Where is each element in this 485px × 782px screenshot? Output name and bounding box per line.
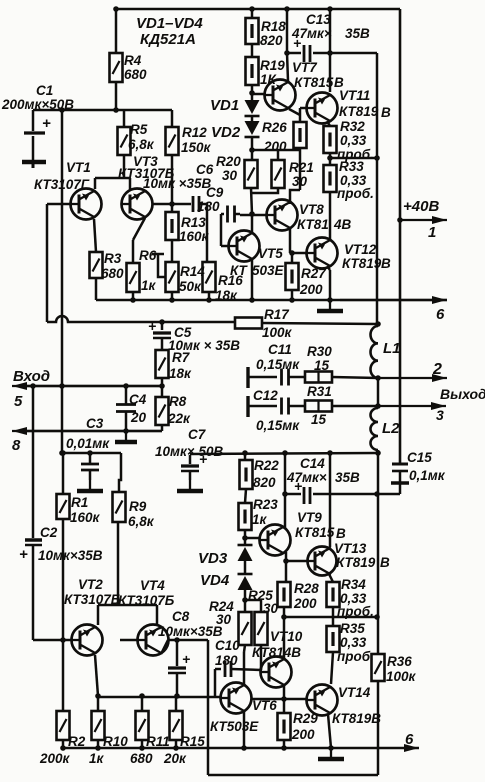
wire input line with terminal 5 arrow bbox=[12, 382, 162, 390]
wire VT9 emitter to R28 bbox=[285, 552, 288, 582]
wire VT4 output drop x=208 bbox=[207, 640, 210, 775]
wire VT14 emitter down bbox=[328, 714, 331, 748]
wire R22 top lead bbox=[244, 453, 247, 460]
transistor VT11 bbox=[306, 93, 338, 124]
junction C13 node bbox=[284, 50, 290, 56]
svg-text:КТ819: КТ819 bbox=[336, 555, 376, 570]
resistor R12 bbox=[166, 127, 179, 155]
resistor R19 bbox=[246, 57, 259, 85]
resistor R25 bbox=[255, 612, 268, 645]
wire R26 top lead bbox=[299, 115, 302, 122]
svg-text:1: 1 bbox=[428, 224, 436, 241]
svg-text:КТ81: КТ81 bbox=[297, 217, 329, 232]
junction R6/rail bbox=[130, 297, 136, 303]
wire R14 wiper bbox=[158, 254, 166, 277]
wire VD1-VD2 bbox=[251, 116, 254, 121]
resistor R31 bbox=[305, 401, 332, 412]
wire C3 top lead bbox=[89, 453, 92, 464]
capacitor C8 bbox=[168, 668, 186, 696]
wire VT5 collector up bbox=[251, 214, 254, 232]
wire R25 top lead bbox=[260, 600, 263, 612]
wire R32-R33 bbox=[329, 153, 332, 165]
wire VT4 base lead bbox=[120, 639, 137, 642]
wire C12 branch end plate bbox=[246, 396, 249, 417]
svg-text:R3: R3 bbox=[104, 251, 122, 266]
wire input return line y=431 bbox=[26, 430, 162, 433]
wire C8 top lead bbox=[176, 640, 179, 666]
svg-text:30: 30 bbox=[263, 601, 279, 616]
capacitor C1 bbox=[22, 110, 46, 168]
wire R24 bottom bbox=[244, 645, 245, 652]
wire VT6 collector up bbox=[243, 652, 246, 684]
junction R16/rail bbox=[206, 297, 212, 303]
junction R4/rail110 bbox=[113, 107, 119, 113]
inductor L2 bbox=[371, 408, 379, 450]
svg-text:VT13: VT13 bbox=[334, 541, 367, 556]
svg-text:R31: R31 bbox=[307, 384, 332, 399]
wire C9 left lead bbox=[221, 213, 224, 216]
wire VT4 collector bbox=[161, 640, 168, 654]
resistor R35 bbox=[327, 626, 340, 652]
transistor VT8 bbox=[266, 200, 298, 231]
svg-text:+: + bbox=[19, 546, 28, 563]
junction R11/rail bbox=[139, 745, 145, 751]
svg-text:10мк×35В: 10мк×35В bbox=[38, 548, 103, 563]
svg-text:С11: С11 bbox=[268, 342, 292, 357]
svg-text:В: В bbox=[381, 256, 391, 271]
wire to VT8 emitter bbox=[290, 190, 300, 204]
wire emitter tie y=178 bbox=[95, 177, 130, 180]
svg-text:VD2: VD2 bbox=[211, 124, 241, 141]
svg-text:4В: 4В bbox=[333, 217, 352, 232]
wire C10 left lead bbox=[215, 668, 221, 671]
wire +40V terminal line bbox=[400, 216, 447, 224]
svg-text:0,1мк: 0,1мк bbox=[409, 468, 446, 483]
capacitor C10 bbox=[225, 661, 231, 677]
wire R35 top lead bbox=[332, 617, 335, 626]
transistor VT2 bbox=[71, 625, 103, 656]
wire R9 bottom to emitter node bbox=[117, 522, 120, 605]
svg-text:R11: R11 bbox=[146, 734, 170, 749]
svg-text:1к: 1к bbox=[252, 512, 268, 527]
svg-text:+: + bbox=[199, 451, 207, 467]
junction C4/return line bbox=[123, 428, 129, 434]
wire R22-R23 bbox=[245, 489, 246, 503]
svg-text:R4: R4 bbox=[124, 53, 142, 68]
svg-text:R32: R32 bbox=[340, 119, 365, 134]
wire R31 to bus bbox=[332, 405, 378, 408]
svg-text:+: + bbox=[42, 115, 51, 132]
wire output bus below L2 bbox=[377, 450, 380, 654]
wire VT5 emitter to rail bbox=[251, 260, 254, 300]
svg-text:10мк ×35В: 10мк ×35В bbox=[143, 176, 211, 191]
svg-text:15: 15 bbox=[311, 412, 327, 427]
svg-text:КТ814В: КТ814В bbox=[252, 645, 301, 660]
wire output terminal 2 line bbox=[378, 374, 447, 382]
wire x=287 rail drop bbox=[286, 9, 289, 53]
wire R19 to VD1 bbox=[251, 85, 254, 100]
transistor VT14 bbox=[306, 685, 338, 716]
svg-text:VT4: VT4 bbox=[140, 578, 165, 593]
junction diode string node bbox=[249, 147, 255, 153]
wire VT1 collector to R3 bbox=[94, 219, 96, 252]
junction VT6/rail bbox=[241, 745, 247, 751]
wire R3 to rail bbox=[95, 278, 98, 300]
junction R29/rail bbox=[281, 745, 287, 751]
transistor VT10 bbox=[260, 657, 292, 688]
transistor VT9 bbox=[259, 525, 291, 556]
svg-text:L2: L2 bbox=[382, 420, 400, 437]
transistor VT12 bbox=[306, 238, 338, 269]
wire VT1 base drop x=47 bbox=[46, 204, 49, 322]
wire R30 to bus bbox=[332, 377, 378, 378]
svg-text:50к: 50к bbox=[179, 279, 202, 294]
wire y=323 R17 to output bus bbox=[262, 323, 377, 324]
svg-text:22к: 22к bbox=[167, 411, 191, 426]
svg-text:180: 180 bbox=[197, 199, 220, 214]
capacitor C5 bbox=[153, 333, 171, 350]
junction R11 top bbox=[139, 693, 145, 699]
svg-text:VT14: VT14 bbox=[338, 685, 371, 700]
resistor R5 bbox=[118, 127, 131, 155]
svg-text:R17: R17 bbox=[264, 307, 290, 322]
junction VT2 collector node bbox=[95, 693, 101, 699]
junction VT5 collector node bbox=[249, 211, 255, 217]
junction rail/R22 bbox=[242, 450, 248, 456]
resistor R11 bbox=[136, 711, 149, 740]
wire R21 bottom tie bbox=[252, 188, 278, 193]
transistor VT4 bbox=[137, 625, 169, 656]
svg-text:0,15мк: 0,15мк bbox=[256, 357, 300, 372]
junction x62/C3 branch bbox=[59, 450, 65, 456]
svg-text:VD3: VD3 bbox=[198, 550, 228, 567]
wire R16 to rail bbox=[208, 292, 211, 300]
resistor R10 bbox=[92, 711, 105, 740]
wire R25 bottom bbox=[260, 645, 263, 652]
wire R13 to R14 bbox=[171, 240, 174, 262]
wire y=453 left C3 branch bbox=[62, 452, 121, 455]
wire bottom terminal 6 arrowhead bbox=[404, 744, 419, 752]
ground under C3 bbox=[77, 480, 103, 491]
capacitor C15 bbox=[391, 464, 409, 494]
junction R12/R13/base node bbox=[169, 201, 175, 207]
junction C5/feedback line bbox=[159, 319, 165, 325]
node top rail / R4 bbox=[113, 6, 119, 12]
svg-text:R8: R8 bbox=[169, 394, 187, 409]
svg-text:VT7: VT7 bbox=[292, 60, 318, 75]
wire VT4 emitter up bbox=[156, 605, 159, 624]
svg-text:200к: 200к bbox=[39, 751, 71, 766]
junction R10/rail bbox=[95, 745, 101, 751]
svg-text:VT8: VT8 bbox=[299, 202, 324, 217]
wire VD4 to R24 bbox=[244, 590, 247, 612]
wire VT8 base lead bbox=[240, 214, 267, 217]
svg-text:VT2: VT2 bbox=[78, 577, 103, 592]
svg-text:VT10: VT10 bbox=[270, 629, 303, 644]
wire VT7 collector up bbox=[287, 53, 288, 81]
svg-text:R1: R1 bbox=[71, 495, 88, 510]
wire emitter tie line y=605 bbox=[98, 604, 157, 607]
svg-text:Выход: Выход bbox=[440, 386, 485, 402]
wire R28 to VT10 emitter bbox=[283, 607, 286, 660]
wire R11 top lead bbox=[141, 696, 144, 711]
svg-text:R9: R9 bbox=[129, 499, 147, 514]
svg-text:R23: R23 bbox=[253, 497, 278, 512]
wire bus below R36 bbox=[377, 681, 380, 775]
svg-text:10мк × 35В: 10мк × 35В bbox=[168, 338, 240, 353]
wire VT2 collector down bbox=[95, 655, 98, 696]
wire C4 top lead bbox=[125, 386, 128, 404]
resistor R9 bbox=[113, 492, 126, 522]
wire C12 branch left bbox=[248, 405, 277, 408]
svg-text:150к: 150к bbox=[181, 140, 212, 155]
junction rail/x285 bbox=[282, 450, 288, 456]
svg-text:+: + bbox=[182, 651, 190, 667]
svg-text:КТ503Е: КТ503Е bbox=[210, 719, 259, 734]
resistor R2 bbox=[57, 711, 70, 740]
wire C10 stub bbox=[214, 669, 217, 697]
junction L2 top / output 3 bbox=[375, 403, 381, 409]
wire C12-R31 bbox=[289, 405, 305, 408]
svg-text:С4: С4 bbox=[129, 392, 147, 407]
wire R27 to rail bbox=[291, 290, 294, 300]
wire C9 right lead bbox=[235, 213, 240, 216]
svg-text:160к: 160к bbox=[179, 229, 210, 244]
resistor R7 bbox=[156, 350, 169, 378]
wire R14 wiper tee bbox=[152, 253, 164, 256]
svg-text:1к: 1к bbox=[141, 278, 157, 293]
svg-text:100к: 100к bbox=[262, 325, 293, 340]
wire VT12 base lead bbox=[290, 252, 307, 255]
resistor R4 bbox=[110, 53, 123, 82]
resistor R23 bbox=[239, 503, 252, 530]
svg-text:+: + bbox=[148, 318, 156, 334]
svg-text:35В: 35В bbox=[345, 26, 370, 41]
svg-text:R2: R2 bbox=[68, 734, 86, 749]
svg-text:КТ819: КТ819 bbox=[342, 256, 382, 271]
svg-text:КТ3107Г: КТ3107Г bbox=[34, 177, 90, 192]
wire C5 top lead bbox=[161, 322, 164, 330]
wire R20 bottom to node bbox=[251, 188, 252, 214]
svg-text:VD1: VD1 bbox=[210, 97, 239, 114]
wire C6 to R16 bbox=[199, 204, 207, 262]
resistor R16 bbox=[203, 262, 216, 292]
wire R6 to rail bbox=[132, 292, 135, 300]
svg-text:R18: R18 bbox=[261, 19, 286, 34]
svg-text:R30: R30 bbox=[307, 344, 332, 359]
svg-text:VT11: VT11 bbox=[339, 88, 370, 103]
svg-text:1к: 1к bbox=[89, 751, 105, 766]
svg-text:VT12: VT12 bbox=[344, 242, 377, 257]
svg-text:R15: R15 bbox=[180, 734, 205, 749]
svg-text:820: 820 bbox=[260, 33, 283, 48]
wire VT11 emitter to R32 bbox=[327, 121, 330, 126]
junction L1 top bbox=[375, 321, 381, 327]
wire x=33 down to C2 bbox=[32, 386, 35, 538]
svg-text:680: 680 bbox=[124, 67, 147, 82]
wire bottom-most line y=775 bbox=[208, 774, 378, 777]
junction x62/rail110 bbox=[59, 107, 65, 113]
svg-text:проб.: проб. bbox=[337, 186, 374, 201]
capacitor C9 bbox=[228, 206, 235, 223]
wire corner down to R9 bbox=[119, 453, 121, 492]
wire VT13 collector drop bbox=[329, 453, 332, 547]
resistor R3 bbox=[90, 252, 103, 278]
wire R15 bottom bbox=[175, 740, 178, 748]
ground under C7 bbox=[177, 480, 203, 491]
svg-text:С9: С9 bbox=[206, 185, 224, 200]
wire R33 to VT12 collector bbox=[329, 192, 332, 241]
diode VD4 bbox=[238, 574, 253, 590]
svg-text:0,33: 0,33 bbox=[340, 635, 367, 650]
svg-text:35В: 35В bbox=[335, 470, 360, 485]
resistor R6 bbox=[127, 263, 140, 292]
capacitor C11 bbox=[282, 369, 289, 386]
transistor VT5 bbox=[228, 231, 260, 262]
resistor R26 bbox=[294, 122, 307, 148]
wire VT1 emitter lead bbox=[94, 178, 97, 189]
svg-text:КТ815: КТ815 bbox=[294, 75, 334, 90]
resistor R30 bbox=[305, 372, 332, 383]
wire R34 bottom bbox=[332, 607, 335, 617]
wire VT3 emitter lead bbox=[129, 178, 132, 189]
wire C3 bottom lead bbox=[89, 470, 92, 480]
wire x=63 R2 bottom bbox=[62, 740, 65, 748]
junction rail/x330 bbox=[327, 6, 333, 12]
wire R11 bottom bbox=[141, 740, 144, 748]
resistor R34 bbox=[327, 582, 340, 607]
svg-text:200: 200 bbox=[291, 727, 315, 742]
transistor VT13 bbox=[307, 547, 337, 576]
svg-text:КТ3107Б: КТ3107Б bbox=[64, 592, 121, 607]
resistor R1 bbox=[57, 494, 70, 519]
junction R2/rail bbox=[60, 745, 66, 751]
svg-text:VD1–VD4: VD1–VD4 bbox=[136, 15, 203, 32]
resistor R21 bbox=[272, 160, 285, 188]
junction lower diode node bbox=[242, 597, 248, 603]
resistor R22 bbox=[240, 460, 253, 489]
svg-text:R27: R27 bbox=[301, 266, 327, 281]
junction y617 node bbox=[281, 614, 287, 620]
diode VD1 bbox=[245, 100, 260, 116]
junction VT13 base tap bbox=[283, 558, 289, 564]
capacitor C4 bbox=[116, 405, 136, 412]
svg-text:47мк×: 47мк× bbox=[291, 26, 332, 41]
wire top +40V rail bbox=[116, 8, 400, 11]
junction C8 tap bbox=[174, 637, 180, 643]
wire VD3-VD4 bbox=[244, 561, 247, 574]
transistor VT6 bbox=[220, 683, 252, 714]
wire bottom rail y=748 bbox=[63, 747, 419, 750]
wire C10 right lead bbox=[231, 669, 261, 670]
wire C4 bottom lead bbox=[125, 411, 128, 431]
svg-text:R35: R35 bbox=[340, 621, 365, 636]
svg-text:5: 5 bbox=[14, 393, 23, 410]
resistor R17 bbox=[235, 318, 262, 329]
svg-text:0,15мк: 0,15мк bbox=[256, 418, 300, 433]
junction input/R7R8 bbox=[159, 383, 165, 389]
wire R5 top lead bbox=[123, 110, 126, 127]
junction VT7 base node bbox=[249, 90, 255, 96]
svg-text:R10: R10 bbox=[103, 734, 128, 749]
svg-text:6: 6 bbox=[405, 731, 414, 748]
junction bus/y617 bbox=[374, 614, 380, 620]
resistor R24 bbox=[239, 612, 252, 645]
svg-text:В: В bbox=[380, 555, 390, 570]
wire return line with terminal 8 arrow bbox=[12, 427, 162, 435]
svg-text:С8: С8 bbox=[172, 609, 190, 624]
wire lower mid rail y=453 bbox=[190, 453, 378, 454]
junction +40V tap bbox=[397, 217, 403, 223]
junction input/C4 bbox=[123, 383, 129, 389]
capacitor C2 bbox=[25, 540, 42, 640]
wire R18 top lead bbox=[251, 9, 254, 18]
wire VT5 base lead bbox=[221, 245, 228, 248]
svg-text:6,8к: 6,8к bbox=[128, 137, 155, 152]
wire R8 top lead bbox=[161, 386, 164, 397]
svg-text:0,33: 0,33 bbox=[340, 133, 367, 148]
junction R15/rail bbox=[173, 745, 179, 751]
wire VT13 base lead bbox=[286, 560, 308, 563]
resistor R13 bbox=[166, 212, 179, 240]
wire x=63 above R1 bbox=[62, 453, 65, 494]
svg-text:VT5: VT5 bbox=[258, 246, 283, 261]
wire VT1 base lead bbox=[47, 203, 71, 206]
svg-text:47мк×: 47мк× bbox=[286, 470, 327, 485]
transistor VT7 bbox=[264, 80, 296, 111]
wire C11-R30 bbox=[289, 376, 305, 379]
svg-text:8: 8 bbox=[12, 437, 21, 454]
wire y=617 line bbox=[284, 616, 377, 619]
svg-text:0,01мк: 0,01мк bbox=[66, 436, 110, 451]
junction R27 tap bbox=[289, 250, 295, 256]
junction VT14 base node bbox=[281, 696, 287, 702]
resistor R33 bbox=[324, 165, 337, 192]
wire VT12 emitter to rail bbox=[329, 270, 332, 300]
resistor R14 bbox=[166, 262, 179, 292]
junction bus tap y=158 bbox=[374, 155, 380, 161]
svg-text:200: 200 bbox=[293, 596, 317, 611]
wire VT3 collector bbox=[133, 218, 145, 240]
junction input/x33 bbox=[30, 383, 36, 389]
junction x63/VT2 base bbox=[60, 637, 66, 643]
svg-text:30: 30 bbox=[216, 612, 232, 627]
svg-text:С12: С12 bbox=[253, 388, 278, 403]
transistor VT1 bbox=[70, 189, 102, 220]
svg-text:проб.: проб. bbox=[337, 649, 374, 664]
junction ground tap bbox=[327, 297, 333, 303]
junction R1 top bbox=[60, 450, 66, 456]
wire R25 bottom to VT10 base bbox=[260, 652, 263, 670]
wire VT9 collector drop bbox=[284, 453, 287, 528]
wire R4 top lead bbox=[115, 9, 118, 53]
junction rail/x330 lower bbox=[327, 450, 333, 456]
svg-text:С15: С15 bbox=[407, 450, 432, 465]
svg-text:200: 200 bbox=[263, 139, 287, 154]
svg-text:6,8к: 6,8к bbox=[128, 514, 155, 529]
svg-text:КТ819: КТ819 bbox=[339, 104, 379, 119]
ground under C4 bbox=[115, 431, 137, 442]
junction L2 bottom / lower rail bbox=[375, 450, 381, 456]
transistor VT3 bbox=[121, 189, 153, 220]
wire VT7 base lead bbox=[252, 93, 264, 96]
wire output bus between L1 and L2 bbox=[377, 378, 380, 406]
wire R18-R19 bbox=[251, 44, 254, 57]
capacitor C12 bbox=[282, 398, 289, 415]
wire R26 bottom down bbox=[299, 148, 302, 190]
svg-text:+40В: +40В bbox=[403, 198, 439, 215]
wire R15 top lead bbox=[175, 696, 178, 711]
